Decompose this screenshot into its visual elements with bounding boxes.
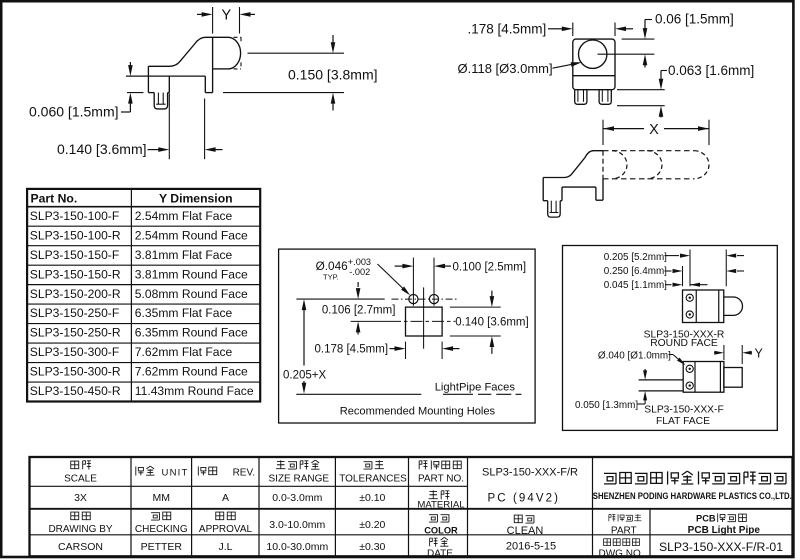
svg-text:PCB Light Pipe: PCB Light Pipe xyxy=(688,525,761,536)
round face unit: ring line xyxy=(718,290,720,323)
svg-text:±0.30: ±0.30 xyxy=(359,541,385,553)
svg-text:J.L: J.L xyxy=(218,541,232,553)
svg-text:0.0-3.0mm: 0.0-3.0mm xyxy=(272,492,322,504)
svg-text:3.0-10.0mm: 3.0-10.0mm xyxy=(269,519,325,531)
svg-text:Ø.040 [Ø1.0mm]: Ø.040 [Ø1.0mm] xyxy=(598,350,671,361)
svg-text:±0.20: ±0.20 xyxy=(359,519,385,531)
unit cell xyxy=(136,466,144,475)
front view: lens circle xyxy=(579,40,607,68)
svg-text:SLP3-150-250-R: SLP3-150-250-R xyxy=(30,326,121,340)
side view: dome face (half ellipse) xyxy=(228,37,241,69)
svg-text:0.060 [1.5mm]: 0.060 [1.5mm] xyxy=(29,104,119,120)
svg-text:SLP3-150-300-F: SLP3-150-300-F xyxy=(30,345,119,359)
X view: leg xyxy=(595,187,597,200)
dim 0.06 [1.5mm]: leader, ref lines, arrows xyxy=(645,19,652,21)
round face unit: pin circles xyxy=(686,294,693,301)
front view: body xyxy=(573,39,615,90)
dim 0.050 [1.3mm] xyxy=(644,369,646,372)
svg-text:0.050 [1.3mm]: 0.050 [1.3mm] xyxy=(575,400,638,411)
hole vertical ext/center lines xyxy=(412,258,414,306)
round unit dims: ext lines xyxy=(689,250,691,287)
svg-text:PART: PART xyxy=(611,526,637,537)
svg-text:3.81mm Round Face: 3.81mm Round Face xyxy=(135,267,248,281)
Y dim flat face xyxy=(723,345,725,360)
hole 2 xyxy=(429,295,438,304)
svg-text:DRAWING BY: DRAWING BY xyxy=(48,524,112,535)
svg-text:11.43mm Round Face: 11.43mm Round Face xyxy=(135,384,254,398)
X view: dashed barrel top/bottom xyxy=(603,150,694,152)
X view: dashed barrel junction xyxy=(602,151,604,179)
svg-text:PART NO.: PART NO. xyxy=(418,473,464,484)
svg-text:SCALE: SCALE xyxy=(64,473,97,484)
round face unit: flange divider xyxy=(695,290,697,323)
dim 0.060 [1.5mm]: upper arrow xyxy=(129,62,131,66)
svg-text:0.140 [3.6mm]: 0.140 [3.6mm] xyxy=(455,317,529,329)
svg-text:3.81mm Flat Face: 3.81mm Flat Face xyxy=(135,248,233,262)
X view: pin xyxy=(548,201,561,217)
part name cell xyxy=(609,515,616,522)
table row SLP3-150-300-F xyxy=(27,362,260,364)
dim 0.140 [3.6mm]: extension lines xyxy=(168,93,170,159)
X view: bottom right of pin + step xyxy=(560,200,562,202)
svg-text:TYP.: TYP. xyxy=(323,273,339,282)
front view: lens circle leader xyxy=(553,64,575,68)
svg-text:.178 [4.5mm]: .178 [4.5mm] xyxy=(468,21,547,36)
face styles panel box xyxy=(563,246,778,431)
svg-text:SLP3-150-250-F: SLP3-150-250-F xyxy=(30,306,119,320)
dim 0.060 [1.5mm]: leader and arrow xyxy=(121,111,130,113)
svg-text:DWG NO.: DWG NO. xyxy=(599,549,644,560)
table row SLP3-150-200-R xyxy=(27,303,260,305)
color cell xyxy=(429,515,437,522)
dim 0.140 [3.6mm] right xyxy=(450,306,501,308)
company name xyxy=(604,473,616,484)
dim 0.060 [1.5mm]: lower ext line xyxy=(127,92,144,94)
date cell xyxy=(430,538,438,546)
svg-text:SLP3-150-450-R: SLP3-150-450-R xyxy=(30,384,121,398)
svg-text:Y: Y xyxy=(755,346,764,360)
svg-text:Ø.046: Ø.046 xyxy=(316,259,349,273)
svg-text:SHENZHEN PODING HARDWARE PLAST: SHENZHEN PODING HARDWARE PLASTICS CO.,LT… xyxy=(593,491,792,502)
svg-text:SIZE RANGE: SIZE RANGE xyxy=(269,473,330,484)
svg-text:6.35mm Round Face: 6.35mm Round Face xyxy=(135,326,248,340)
svg-text:APPROVAL: APPROVAL xyxy=(199,524,253,535)
svg-text:0.205 [5.2mm]: 0.205 [5.2mm] xyxy=(604,252,667,263)
side view: head bottom edge xyxy=(213,68,228,70)
svg-text:A: A xyxy=(222,492,229,504)
dim 0.150 [3.8mm]: reference lines xyxy=(248,52,345,54)
dim 0.178 [4.5mm] bottom xyxy=(405,342,407,359)
svg-text:-.002: -.002 xyxy=(349,267,370,277)
round face unit: body xyxy=(683,290,724,323)
hole 1 xyxy=(409,295,418,304)
svg-text:CHECKING: CHECKING xyxy=(135,524,188,535)
svg-text:0.140 [3.6mm]: 0.140 [3.6mm] xyxy=(57,141,147,157)
side view: flange top internal edge + extension to dimension xyxy=(126,75,205,77)
row3 labels xyxy=(71,512,79,520)
svg-text:COLOR: COLOR xyxy=(424,526,458,536)
table row SLP3-150-150-R xyxy=(27,284,260,286)
svg-text:TOLERANCES: TOLERANCES xyxy=(339,473,407,484)
side view: leg bottom xyxy=(205,92,212,94)
svg-text:CLEAN: CLEAN xyxy=(507,525,544,537)
dwg no cell xyxy=(604,539,611,546)
table row SLP3-150-300-R xyxy=(27,381,260,383)
X view: bottom left of pin xyxy=(543,200,548,202)
round face unit: dome xyxy=(724,297,743,315)
svg-text:+.003: +.003 xyxy=(348,257,371,267)
svg-text:MATERIAL: MATERIAL xyxy=(417,500,465,511)
size range cell xyxy=(276,460,285,468)
svg-text:Y: Y xyxy=(221,7,231,23)
svg-text:SLP3-150-150-R: SLP3-150-150-R xyxy=(30,267,121,281)
svg-text:REV.: REV. xyxy=(233,467,255,478)
side view: flange bottom right of pin xyxy=(168,92,170,94)
dim 0.106 [2.7mm] xyxy=(357,282,359,287)
table row SLP3-150-150-F xyxy=(27,264,260,266)
front view: left pin xyxy=(575,90,587,105)
flat face unit: flat face block xyxy=(724,368,742,388)
table row SLP3-150-100-F xyxy=(27,225,260,227)
recommended mounting holes box xyxy=(279,249,535,423)
X view: dashed dome arcs (position options) xyxy=(612,151,627,179)
side view: flange bottom left of pin xyxy=(148,92,154,94)
svg-text:0.06 [1.5mm]: 0.06 [1.5mm] xyxy=(655,12,734,27)
dim 0.205+X vertical xyxy=(303,308,305,366)
svg-text:SLP3-150-XXX-F/R-01: SLP3-150-XXX-F/R-01 xyxy=(659,540,783,554)
part number table xyxy=(27,189,260,402)
flat face unit: body xyxy=(683,362,724,393)
svg-text:UNIT: UNIT xyxy=(162,467,189,478)
X dimension: ext lines, arrows, label xyxy=(602,120,604,145)
svg-text:0.178 [4.5mm]: 0.178 [4.5mm] xyxy=(315,344,389,356)
side view: notch left edge xyxy=(204,76,206,93)
svg-text:SLP3-150-XXX-F/R: SLP3-150-XXX-F/R xyxy=(482,467,578,479)
side view: barrel junction / leg right edge xyxy=(212,37,214,92)
table header row xyxy=(27,206,260,208)
X view: left edge xyxy=(542,178,544,201)
footprint vertical centerline xyxy=(423,287,425,348)
side view: step at pin area xyxy=(168,76,170,93)
hole axis dash-dot through holes xyxy=(392,298,459,300)
dim 0.100 [2.5mm] xyxy=(395,265,403,267)
svg-text:10.0-30.0mm: 10.0-30.0mm xyxy=(266,541,328,553)
Y dimension: arrows and label xyxy=(197,13,202,15)
svg-text:7.62mm Round Face: 7.62mm Round Face xyxy=(135,365,248,379)
svg-text:SLP3-150-XXX-F: SLP3-150-XXX-F xyxy=(644,404,724,415)
svg-text:SLP3-150-300-R: SLP3-150-300-R xyxy=(30,365,121,379)
svg-text:PCB: PCB xyxy=(696,513,716,523)
PCB board edge lines xyxy=(639,379,684,381)
svg-text:SLP3-150-100-R: SLP3-150-100-R xyxy=(30,228,121,242)
svg-text:Part No.: Part No. xyxy=(31,191,78,205)
title block vertical rules xyxy=(130,457,132,556)
svg-text:2016-5-15: 2016-5-15 xyxy=(506,540,556,552)
X view: profile outline xyxy=(543,151,603,178)
svg-text:PC (94V2): PC (94V2) xyxy=(488,493,561,505)
material cell xyxy=(429,490,438,498)
table row SLP3-150-250-R xyxy=(27,342,260,344)
hole axis line solid left xyxy=(296,298,384,300)
svg-text:SLP3-150-200-R: SLP3-150-200-R xyxy=(30,287,121,301)
svg-text:Ø.118 [Ø3.0mm]: Ø.118 [Ø3.0mm] xyxy=(458,61,553,76)
svg-text:0.250 [6.4mm]: 0.250 [6.4mm] xyxy=(604,266,667,277)
svg-text:MM: MM xyxy=(153,492,171,504)
front view: flange line xyxy=(573,75,615,77)
svg-text:LightPipe Faces: LightPipe Faces xyxy=(435,382,516,394)
svg-text:Recommended Mounting Holes: Recommended Mounting Holes xyxy=(340,406,496,418)
Y dimension: extension lines xyxy=(212,7,214,34)
side view: pin flutes xyxy=(157,93,159,105)
hole callout leader xyxy=(378,264,404,289)
svg-text:ROUND FACE: ROUND FACE xyxy=(650,338,718,349)
X view: notch bottom xyxy=(562,186,596,188)
svg-text:0.100 [2.5mm]: 0.100 [2.5mm] xyxy=(453,262,527,274)
svg-text:5.08mm Round Face: 5.08mm Round Face xyxy=(135,287,248,301)
table row SLP3-150-250-F xyxy=(27,323,260,325)
face zone dashed bracket marks xyxy=(234,37,242,69)
svg-text:2.54mm Round Face: 2.54mm Round Face xyxy=(135,228,248,242)
scale cell xyxy=(71,461,79,469)
front view: right pin xyxy=(599,90,611,105)
tolerances cell xyxy=(364,462,372,469)
svg-text:FLAT FACE: FLAT FACE xyxy=(656,416,710,427)
dim 0.063 [1.6mm]: ref lines, leader, arrows xyxy=(617,89,665,91)
svg-text:X: X xyxy=(649,122,659,138)
side view: left edge xyxy=(147,66,149,92)
footprint horizontal centerline xyxy=(389,320,455,322)
svg-text:0.045 [1.1mm]: 0.045 [1.1mm] xyxy=(604,280,667,291)
flat face unit: pin circles xyxy=(686,365,693,372)
svg-text:3X: 3X xyxy=(74,492,87,504)
PCB face reference line xyxy=(296,393,421,395)
svg-text:DATE: DATE xyxy=(427,549,453,560)
dim 0.150 [3.8mm]: arrows xyxy=(332,35,334,43)
side view: PCB pin outline xyxy=(154,93,167,109)
svg-text:0.150 [3.8mm]: 0.150 [3.8mm] xyxy=(288,66,378,82)
svg-text:PETTER: PETTER xyxy=(141,541,183,553)
svg-text:Y Dimension: Y Dimension xyxy=(159,191,233,205)
dim .178 [4.5mm]: ext lines + arrows xyxy=(572,23,574,37)
svg-text:6.35mm Flat Face: 6.35mm Flat Face xyxy=(135,306,233,320)
rev cell xyxy=(198,466,206,475)
svg-text:0.106 [2.7mm]: 0.106 [2.7mm] xyxy=(322,305,396,317)
svg-text:SLP3-150-150-F: SLP3-150-150-F xyxy=(30,248,119,262)
side view: light pipe profile outline xyxy=(148,37,228,66)
front view: center line from circle xyxy=(598,53,655,55)
lightpipe faces line: solid + dashes xyxy=(443,393,473,395)
part no cell xyxy=(419,461,427,470)
svg-text:CARSON: CARSON xyxy=(58,541,103,553)
footprint rectangle xyxy=(406,307,443,336)
divider part name col (rows 3-4 only) xyxy=(649,509,651,557)
svg-text:7.62mm Flat Face: 7.62mm Flat Face xyxy=(135,345,233,359)
svg-text:2.54mm Flat Face: 2.54mm Flat Face xyxy=(135,209,233,223)
dim 0.140 [3.6mm]: arrows and label xyxy=(148,149,160,151)
svg-text:±0.10: ±0.10 xyxy=(359,492,385,504)
svg-text:0.063 [1.6mm]: 0.063 [1.6mm] xyxy=(668,63,754,78)
title block outer xyxy=(30,457,793,556)
table row SLP3-150-100-R xyxy=(27,245,260,247)
title block horizontal rules xyxy=(30,485,468,487)
svg-text:SLP3-150-100-F: SLP3-150-100-F xyxy=(30,209,119,223)
svg-text:0.205+X: 0.205+X xyxy=(283,370,326,382)
